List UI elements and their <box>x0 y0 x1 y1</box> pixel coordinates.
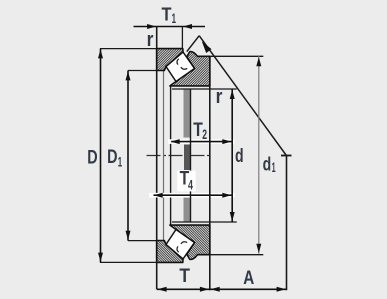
label T4 white backing <box>177 171 195 192</box>
housing washer lower <box>157 241 183 263</box>
lower bearing section (mirror) <box>157 225 210 262</box>
wire: d1 extension bottom y=254.7 <box>205 254 263 256</box>
cage arc lower left <box>177 246 179 252</box>
gray shaft abutment bar upper <box>184 89 191 137</box>
pressure center cap on axis <box>281 155 292 157</box>
shaft washer lower <box>170 225 210 259</box>
load pressure line peak left segment <box>187 36 199 52</box>
wire: shaft washer bore line / d extension top y=88.5 <box>172 88 237 90</box>
white halo casing of T2 dimension line <box>168 139 235 144</box>
dimension d line x=232.2 <box>231 89 233 222</box>
dimension d1 line x=258.8 <box>258 56 260 254</box>
roller lower <box>166 230 195 260</box>
svg-text:2: 2 <box>202 127 207 142</box>
arrowhead on pressure line <box>199 39 211 53</box>
wire: shaft washer bore step x=190.5 <box>190 89 192 222</box>
wire: D1 extension bottom y=240.6 <box>128 240 158 242</box>
wire: housing washer back face / T extension line x=156.7 <box>156 27 158 290</box>
centerline (axis) <box>147 155 212 157</box>
gray shaft abutment bar center dark <box>184 145 190 171</box>
dimension T2 line y=141.6 <box>171 141 232 143</box>
svg-text:r: r <box>147 29 154 51</box>
svg-text:D: D <box>107 146 117 168</box>
wire: D extension top y=48.6 <box>100 48 157 50</box>
wire: shaft washer front bore face x=171.2 <box>170 86 172 225</box>
dimension T4 line y=195.2 <box>154 194 233 196</box>
dimension T1 line y=26.5 <box>134 26 206 28</box>
wire: A right boundary x=286.5 <box>286 156 288 291</box>
cage arc lower right <box>181 242 187 244</box>
dimension T and A line y=289.3 <box>157 288 287 290</box>
gray shaft abutment bar lower <box>184 198 191 223</box>
cage arc upper left <box>177 59 179 65</box>
wire: housing washer bore face silhouette x=163.5 <box>163 71 165 241</box>
svg-text:1: 1 <box>272 160 276 175</box>
dimension D line x=100.5 <box>100 49 102 263</box>
svg-text:A: A <box>243 267 254 289</box>
svg-text:1: 1 <box>118 155 123 170</box>
svg-text:D: D <box>87 146 97 168</box>
wire: shaft washer back face x=209.8 <box>209 56 211 290</box>
roller upper <box>166 52 195 82</box>
shaft washer upper <box>170 52 210 86</box>
svg-text:T: T <box>162 5 172 25</box>
wire: d1 extension top y=56.3 <box>208 55 263 57</box>
cage arc upper right <box>181 67 187 69</box>
wire: shaft washer bore line / d extension bottom y=222.5 <box>172 221 237 223</box>
svg-text:r: r <box>216 86 223 108</box>
svg-text:4: 4 <box>188 178 193 193</box>
wire: D1 extension top y=70.5 <box>128 70 158 72</box>
wire: D extension bottom y=262.4 <box>100 261 157 263</box>
svg-text:T: T <box>179 265 190 287</box>
housing washer upper <box>157 49 183 71</box>
load pressure line diagonal to axis <box>199 36 286 156</box>
svg-text:d: d <box>263 153 272 175</box>
white halo casing of T4 dimension line <box>149 193 235 198</box>
upper bearing section <box>157 49 210 86</box>
dimension D1 line x=128 <box>127 71 129 241</box>
T1 right extension vertical x=182.4 <box>181 27 183 50</box>
svg-text:1: 1 <box>172 11 177 26</box>
svg-text:d: d <box>235 145 244 167</box>
